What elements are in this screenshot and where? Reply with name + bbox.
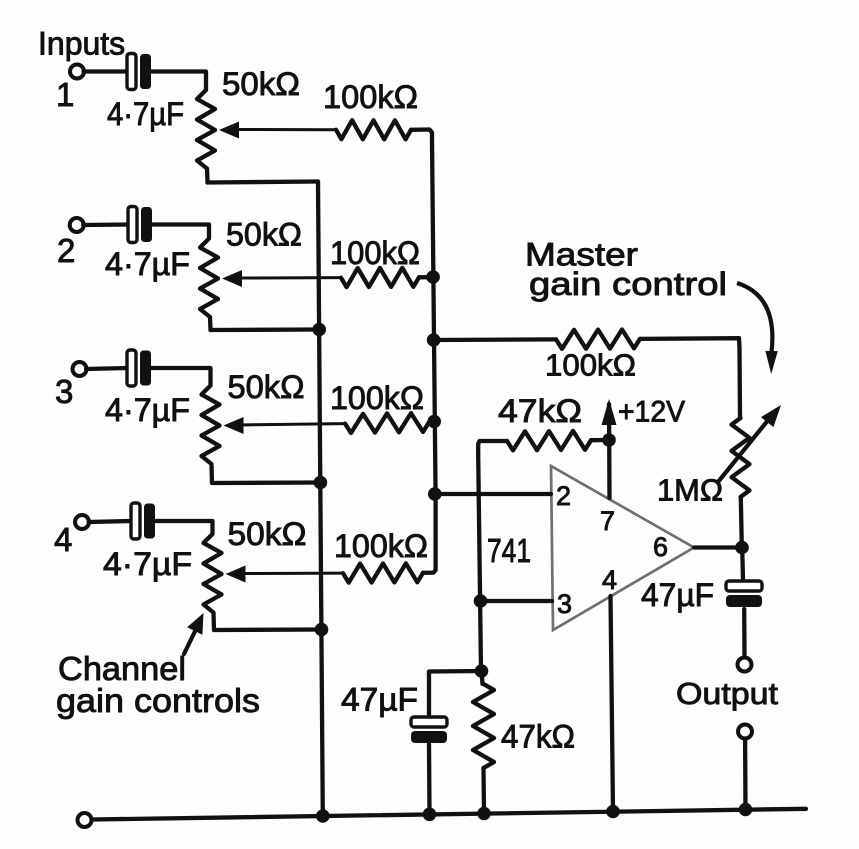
label C2 value 4·7µF bbox=[105, 246, 190, 282]
label Inputs bbox=[38, 26, 125, 62]
wire pin 7 to +12V bbox=[607, 404, 612, 498]
resistor R3s 100k bbox=[345, 413, 429, 433]
wire bias node to R6 bbox=[482, 671, 483, 684]
junction left bus ch3 bbox=[314, 476, 328, 490]
svg-text:50kΩ: 50kΩ bbox=[228, 369, 305, 405]
svg-text:4·7µF: 4·7µF bbox=[105, 246, 190, 282]
potentiometer R2 50k bbox=[200, 225, 218, 331]
potentiometer R1 50k bbox=[197, 72, 215, 183]
wire C3 to R3 top bbox=[151, 366, 210, 370]
svg-text:50kΩ: 50kΩ bbox=[228, 516, 307, 552]
node output ground terminal bbox=[738, 725, 752, 739]
resistor R9 100k feedback bbox=[556, 330, 640, 349]
potentiometer R3 50k bbox=[202, 368, 220, 483]
wiper arrow R4 bbox=[226, 566, 344, 583]
svg-text:100kΩ: 100kΩ bbox=[330, 235, 420, 271]
resistor R2s 100k bbox=[341, 268, 419, 287]
wiper arrow R2 bbox=[222, 270, 341, 287]
svg-text:2: 2 bbox=[556, 481, 571, 511]
svg-text:47kΩ: 47kΩ bbox=[501, 719, 575, 755]
svg-text:3: 3 bbox=[557, 589, 572, 619]
label R4s value 100kΩ bbox=[334, 528, 428, 564]
svg-text:47µF: 47µF bbox=[641, 577, 714, 613]
wire pin 3 bbox=[481, 599, 553, 603]
wire R2s to summing bus bbox=[419, 275, 430, 279]
wire pin 6 output bbox=[694, 545, 742, 549]
svg-text:Output: Output bbox=[676, 676, 778, 711]
label R2 value 50kΩ bbox=[226, 217, 302, 253]
junction output node bbox=[735, 541, 749, 555]
wire R4s riser to node A bbox=[423, 497, 436, 573]
label R9 value 100kΩ bbox=[545, 348, 636, 383]
label RV1 value 1MΩ bbox=[657, 473, 723, 508]
svg-text:gain controls: gain controls bbox=[56, 682, 260, 719]
capacitor C6 47µF output bbox=[726, 581, 762, 607]
svg-text:47µF: 47µF bbox=[341, 682, 418, 718]
potentiometer RV1 1M bbox=[732, 418, 750, 497]
wire ground rail bbox=[92, 809, 806, 820]
junction node A ch2 bbox=[426, 270, 440, 284]
wire to RV1 top bbox=[737, 348, 742, 418]
label R4 value 50kΩ bbox=[228, 516, 307, 552]
svg-text:4: 4 bbox=[54, 521, 72, 558]
label U1 pin 4 bbox=[602, 565, 617, 595]
label input number 1 bbox=[56, 76, 74, 113]
label R2s value 100kΩ bbox=[330, 235, 420, 271]
label U1 741 bbox=[487, 532, 531, 569]
capacitor C3 4.7uF bbox=[127, 350, 151, 386]
wire node A to R9 bbox=[434, 337, 556, 342]
svg-text:4·7µF: 4·7µF bbox=[103, 546, 192, 582]
junction pin 3 node bbox=[474, 594, 488, 608]
label R6 value 47kΩ bbox=[501, 719, 575, 755]
label R5 value 47kΩ bbox=[498, 393, 582, 429]
label U1 pin 6 bbox=[653, 532, 668, 562]
resistor R5 47k bbox=[507, 431, 591, 451]
wire R3s to summing bus bbox=[429, 420, 432, 425]
wire R5 to +12V node bbox=[591, 438, 609, 443]
wire left bus bbox=[318, 182, 323, 817]
power +12V arrow bbox=[602, 399, 617, 425]
op-amp U1 741 body bbox=[551, 466, 694, 630]
svg-text:4·7µF: 4·7µF bbox=[105, 392, 190, 428]
junction rail pin4 bbox=[606, 805, 620, 819]
capacitor C2 4.7uF bbox=[128, 207, 152, 243]
junction left bus ch4 bbox=[315, 623, 329, 637]
junction rail R6 bbox=[477, 807, 491, 821]
capacitor C1 4.7uF bbox=[127, 54, 151, 90]
label R3s value 100kΩ bbox=[330, 380, 424, 416]
svg-text:100kΩ: 100kΩ bbox=[323, 79, 418, 115]
wire summing bus bbox=[432, 140, 436, 497]
wire R2 bottom to bus bbox=[211, 327, 320, 332]
potentiometer R4 50k bbox=[204, 521, 222, 630]
label input number 2 bbox=[57, 232, 75, 269]
wire R5 left riser bbox=[478, 441, 507, 455]
node input 3 terminal bbox=[73, 362, 87, 376]
label R1s value 100kΩ bbox=[323, 79, 418, 115]
svg-text:7: 7 bbox=[600, 506, 615, 536]
label R3 value 50kΩ bbox=[228, 369, 305, 405]
junction rail output bbox=[739, 803, 753, 817]
svg-text:47kΩ: 47kΩ bbox=[498, 393, 582, 429]
node input 2 terminal bbox=[70, 218, 84, 232]
wire output node to C6 bbox=[740, 548, 745, 580]
label C4 value 4·7µF bbox=[103, 546, 192, 582]
label C5 value 47µF bbox=[341, 682, 418, 718]
resistor R6 47k bbox=[473, 684, 494, 768]
wiper arrow R1 bbox=[219, 122, 336, 139]
wire C5 to ground bbox=[427, 744, 432, 814]
wire R3 bottom to bus bbox=[212, 480, 320, 485]
wire output ground terminal to rail bbox=[743, 739, 748, 811]
label C1 value 4·7µF bbox=[107, 96, 184, 132]
wire R5 riser to pin3 node bbox=[478, 455, 481, 671]
node output hot terminal bbox=[738, 658, 752, 672]
wire C2 to R2 top bbox=[152, 222, 209, 226]
capacitor C4 4.7uF bbox=[131, 503, 155, 539]
label Channel gain controls bbox=[56, 650, 260, 719]
svg-text:100kΩ: 100kΩ bbox=[545, 348, 636, 383]
wire R1s to summing bus corner bbox=[411, 130, 432, 141]
svg-text:741: 741 bbox=[487, 532, 531, 569]
wire C4 to R4 top bbox=[155, 519, 212, 523]
wire input 2 to C2 bbox=[83, 222, 128, 227]
label input number 3 bbox=[55, 373, 73, 410]
resistor R4s 100k bbox=[343, 563, 423, 582]
wire C6 to output terminal bbox=[742, 609, 747, 657]
junction rail left bus bbox=[316, 809, 330, 823]
junction node A pin2 bbox=[428, 487, 442, 501]
label U1 pin 7 bbox=[600, 506, 615, 536]
arrow RV1 wiper bbox=[718, 405, 781, 482]
wire node A to pin 2 bbox=[435, 492, 551, 496]
wire R4 bottom to bus bbox=[214, 627, 322, 632]
junction node A ch3 bbox=[427, 415, 441, 429]
label U1 pin 3 bbox=[557, 589, 572, 619]
svg-text:+12V: +12V bbox=[618, 396, 685, 429]
svg-text:100kΩ: 100kΩ bbox=[334, 528, 428, 564]
resistor R1s 100k bbox=[336, 120, 411, 139]
wire RV1 to output node bbox=[741, 497, 742, 548]
wiper arrow R3 bbox=[224, 417, 346, 434]
svg-text:100kΩ: 100kΩ bbox=[330, 380, 424, 416]
label Master gain control bbox=[525, 237, 727, 303]
svg-text:6: 6 bbox=[653, 532, 668, 562]
svg-text:1MΩ: 1MΩ bbox=[657, 473, 723, 508]
label C3 value 4·7µF bbox=[105, 392, 190, 428]
wire input 1 to C1 bbox=[84, 69, 127, 73]
wire R6 to ground bbox=[481, 768, 486, 813]
wire R1 bottom to bus bbox=[208, 182, 319, 183]
arrow channel gain pointer bbox=[184, 613, 204, 654]
svg-text:50kΩ: 50kΩ bbox=[222, 66, 300, 102]
node input 1 terminal bbox=[70, 65, 84, 79]
label U1 pin 2 bbox=[556, 481, 571, 511]
wire input 3 to C3 bbox=[86, 368, 127, 369]
wire C1 to R1 top bbox=[151, 69, 206, 73]
label input number 4 bbox=[54, 521, 72, 558]
svg-text:4: 4 bbox=[602, 565, 617, 595]
wire bias node to C5 bbox=[429, 671, 482, 715]
junction left bus ch2 bbox=[312, 323, 326, 337]
label C6 value 47µF bbox=[641, 577, 714, 613]
junction bias node bbox=[475, 664, 489, 678]
svg-text:1: 1 bbox=[56, 76, 74, 113]
svg-text:2: 2 bbox=[57, 232, 75, 269]
label R1 value 50kΩ bbox=[222, 66, 300, 102]
svg-text:50kΩ: 50kΩ bbox=[226, 217, 302, 253]
capacitor C5 47µF bbox=[411, 717, 447, 743]
junction node A feedback bbox=[427, 333, 441, 347]
svg-text:4·7µF: 4·7µF bbox=[107, 96, 184, 132]
svg-text:gain control: gain control bbox=[529, 266, 727, 302]
wire R9 to master pot bbox=[640, 338, 740, 348]
node input 4 terminal bbox=[75, 515, 89, 529]
wire input 4 to C4 bbox=[89, 521, 131, 522]
junction rail C5 bbox=[423, 808, 437, 822]
label Output bbox=[676, 676, 778, 711]
junction pin7 R5 bbox=[602, 433, 616, 447]
node ground rail left terminal bbox=[78, 813, 92, 827]
svg-text:3: 3 bbox=[55, 373, 73, 410]
label +12V bbox=[618, 396, 685, 429]
wire pin 4 to ground bbox=[611, 596, 614, 812]
arrow master gain pointer bbox=[737, 283, 778, 374]
svg-text:Inputs: Inputs bbox=[38, 26, 125, 62]
